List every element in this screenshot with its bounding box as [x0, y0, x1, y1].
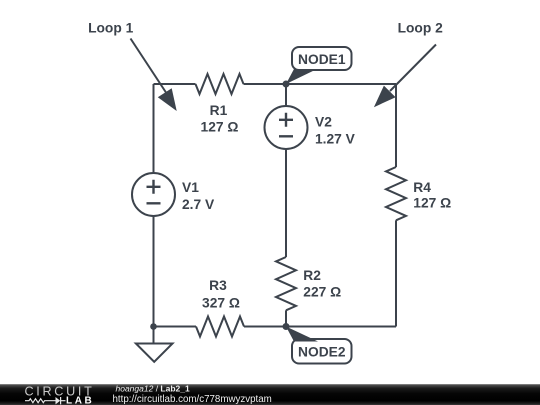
- label R3 value: [202, 278, 240, 311]
- svg-text:V2: V2: [315, 115, 332, 130]
- svg-text:NODE2: NODE2: [298, 345, 346, 360]
- svg-text:327 Ω: 327 Ω: [202, 296, 240, 311]
- footer logo squiggle: [25, 397, 66, 404]
- svg-text:V1: V1: [182, 180, 199, 195]
- svg-text:2.7 V: 2.7 V: [182, 197, 215, 212]
- resistor R2: [276, 257, 296, 310]
- svg-text:NODE1: NODE1: [298, 52, 346, 67]
- loop annotation Loop 1 arrow: [88, 21, 177, 112]
- node junction ground dot: [150, 323, 157, 330]
- wire top-right segment: [244, 83, 397, 85]
- resistor R1: [196, 74, 244, 94]
- wire left upper: [153, 84, 155, 173]
- wire left lower: [153, 216, 155, 327]
- svg-text:http://circuitlab.com/c778mwyz: http://circuitlab.com/c778mwyzvptam: [113, 394, 272, 405]
- resistor R4: [386, 167, 406, 220]
- ground: [136, 327, 173, 362]
- svg-text:1.27 V: 1.27 V: [315, 132, 356, 147]
- svg-text:LAB: LAB: [66, 396, 94, 405]
- wire bottom-right segment: [244, 326, 396, 328]
- label R2 value: [303, 268, 341, 300]
- loop annotation Loop 2 arrow: [374, 21, 443, 108]
- label V1 value: [182, 180, 215, 212]
- label V2 value: [315, 115, 356, 147]
- wire right lower: [395, 220, 397, 326]
- node junction NODE1 dot: [283, 81, 290, 88]
- wire top-left segment: [154, 83, 196, 85]
- wire bottom-left segment: [154, 326, 197, 328]
- node NODE2 callout box: [286, 327, 352, 364]
- svg-text:hoanga12 / Lab2_1: hoanga12 / Lab2_1: [116, 384, 190, 394]
- node NODE1 callout box: [286, 47, 352, 84]
- svg-text:R1: R1: [210, 103, 228, 118]
- svg-text:227 Ω: 227 Ω: [303, 285, 341, 300]
- svg-text:R4: R4: [413, 180, 431, 195]
- resistor R3: [196, 317, 244, 337]
- svg-text:R2: R2: [303, 268, 321, 283]
- voltage source V2: [265, 106, 308, 149]
- wire right upper: [395, 84, 397, 167]
- svg-text:Loop 2: Loop 2: [398, 21, 444, 36]
- wire middle upper: [285, 84, 287, 106]
- svg-text:R3: R3: [209, 278, 227, 293]
- svg-text:127 Ω: 127 Ω: [201, 120, 239, 135]
- label R4 value: [413, 180, 451, 211]
- wire middle lower: [285, 310, 287, 326]
- node junction NODE2 dot: [283, 323, 290, 330]
- voltage source V1: [132, 173, 175, 216]
- label R1 value: [201, 103, 239, 135]
- svg-text:127 Ω: 127 Ω: [413, 196, 451, 211]
- footer bar: [0, 384, 540, 405]
- svg-text:Loop 1: Loop 1: [88, 21, 134, 36]
- wire middle mid: [285, 149, 287, 257]
